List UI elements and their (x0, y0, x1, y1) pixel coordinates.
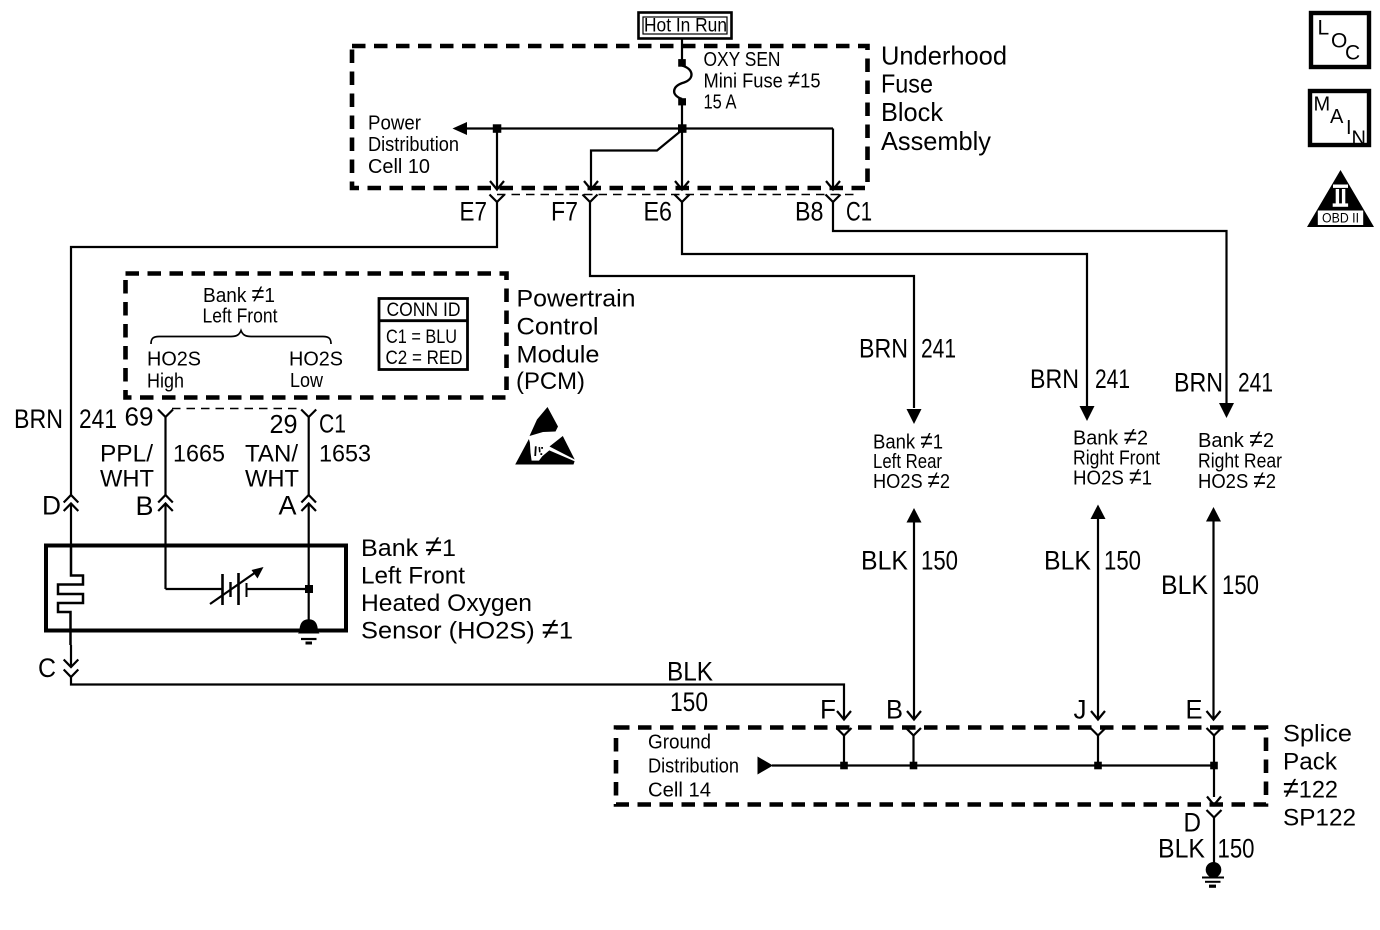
svg-text:Control: Control (517, 314, 599, 341)
ESD sensitive device symbol (515, 407, 575, 465)
wire: C to splice pack F (BLK 150) (71, 677, 851, 720)
junction at F (840, 762, 848, 770)
label: Splice Pack #122 SP122 (1283, 721, 1356, 832)
wire: Bank #1 Left Rear to splice B (BLK 150) (907, 508, 922, 720)
svg-text:WHT: WHT (100, 466, 154, 493)
svg-text:241: 241 (921, 334, 956, 364)
svg-text:F7: F7 (551, 197, 578, 227)
svg-text:B: B (886, 695, 903, 725)
label: Bank #1 Left Rear HO2S #2 (873, 428, 950, 495)
svg-text:E: E (1186, 695, 1203, 725)
wire: Bank #2 Right Rear to splice E (BLK 150) (1206, 507, 1221, 720)
ground G (chassis ground) (1202, 862, 1224, 886)
label: BLK 150 (column 1) (861, 546, 958, 576)
svg-text:Block: Block (881, 97, 944, 127)
label: Bank #2 Right Rear HO2S #2 (1198, 426, 1282, 494)
OBD II logo (1307, 170, 1374, 227)
svg-text:Mini Fuse ≠15: Mini Fuse ≠15 (704, 67, 821, 94)
junction at B (910, 762, 918, 770)
svg-text:1653: 1653 (319, 441, 371, 468)
wire: E7 to HO2S heater (BRN 241 left) (71, 202, 497, 495)
svg-text:CONN ID: CONN ID (387, 299, 461, 321)
splice bus wire SP122 (772, 764, 1214, 766)
svg-text:150: 150 (670, 687, 708, 717)
svg-text:BRN: BRN (1030, 364, 1079, 394)
wire: B8 drop with arrow (826, 129, 840, 190)
wire: Bank #2 Right Front to splice J (BLK 150) (1091, 505, 1106, 720)
PCM connector face dashed line (172, 408, 302, 410)
label: OXY SEN Mini Fuse #15 15 A (704, 49, 821, 114)
svg-text:Fuse: Fuse (881, 69, 933, 99)
svg-text:Right Front: Right Front (1073, 448, 1160, 470)
label BRN 241 (column 2) (1030, 364, 1130, 394)
wire: pin 29 to connector A (308, 417, 310, 495)
svg-text:PPL/: PPL/ (100, 441, 153, 468)
label: Bank #2 Right Front HO2S #1 (1073, 424, 1160, 491)
svg-text:BLK: BLK (1044, 546, 1091, 576)
svg-text:C: C (38, 653, 56, 683)
connector E7 (490, 195, 505, 203)
svg-text:HO2S: HO2S (289, 349, 343, 371)
connector pin 69 (158, 410, 173, 418)
svg-text:E7: E7 (460, 197, 488, 227)
svg-text:241: 241 (79, 404, 117, 434)
svg-text:HO2S ≠1: HO2S ≠1 (1073, 464, 1152, 491)
label: Ground Distribution Cell 14 (648, 732, 739, 802)
svg-text:Splice: Splice (1283, 721, 1352, 748)
label: BLK 150 (column 2) (1044, 546, 1141, 576)
svg-text:Assembly: Assembly (881, 126, 991, 156)
svg-text:C2 = RED: C2 = RED (386, 347, 463, 369)
svg-text:(PCM): (PCM) (516, 368, 585, 395)
svg-text:D: D (42, 491, 61, 521)
LOC reference box (1311, 13, 1369, 67)
ground feed arrow (into splice bus) (758, 757, 774, 775)
svg-text:C1: C1 (846, 197, 872, 227)
label: BLK 150 (column 3) (1161, 570, 1259, 600)
svg-text:OXY SEN: OXY SEN (704, 49, 781, 71)
wire: splice to connector D (ground) (1207, 766, 1221, 806)
svg-text:C1: C1 (319, 409, 346, 439)
svg-text:69: 69 (125, 402, 154, 432)
inline connector A (301, 495, 316, 544)
label: BLK 150 (ground lead) (1158, 834, 1255, 864)
svg-text:HO2S ≠2: HO2S ≠2 (1198, 467, 1276, 494)
connector F (837, 728, 852, 766)
svg-text:B8: B8 (795, 197, 824, 227)
svg-text:≠122: ≠122 (1283, 772, 1338, 805)
junction at E (1210, 762, 1218, 770)
connector B8/C1 (826, 195, 841, 203)
sensing element (variable cell with arrow) (166, 544, 310, 605)
svg-text:Distribution: Distribution (648, 756, 739, 778)
svg-text:L: L (1318, 17, 1330, 40)
junction (sense wire to pin A wire) (305, 585, 313, 593)
svg-text:Bank ≠2: Bank ≠2 (1073, 424, 1148, 451)
label: TAN/WHT (245, 441, 299, 493)
svg-text:BLK: BLK (1161, 570, 1208, 600)
svg-text:Left Front: Left Front (203, 306, 278, 328)
svg-text:Ground: Ground (648, 732, 711, 754)
splice pack dashed box (Ground Distribution) (616, 728, 1266, 805)
PCM dashed box (126, 274, 507, 398)
svg-text:Bank ≠2: Bank ≠2 (1198, 426, 1274, 453)
connector face dashed line (fuse block connectors) (497, 194, 856, 196)
svg-text:150: 150 (1104, 546, 1141, 576)
wire: fuse output to junction (681, 104, 683, 130)
svg-text:Left Front: Left Front (361, 563, 465, 590)
label: Bank #1 Left Front (PCM internal) (203, 281, 278, 328)
svg-text:C1 = BLU: C1 = BLU (386, 326, 457, 348)
svg-text:F: F (820, 695, 836, 725)
svg-text:C: C (1345, 42, 1360, 65)
svg-text:1665: 1665 (173, 441, 225, 468)
svg-text:BLK: BLK (667, 657, 713, 687)
svg-text:Low: Low (290, 370, 323, 392)
svg-text:Distribution: Distribution (368, 134, 459, 156)
label BRN 241 (left wire) (14, 404, 117, 434)
svg-text:B: B (136, 491, 154, 521)
wire: E6 to Bank #2 Right Front arrow (682, 202, 1095, 421)
svg-text:150: 150 (1218, 834, 1255, 864)
svg-text:150: 150 (921, 546, 958, 576)
inline connector C (BLK 150 out) (64, 645, 79, 677)
power source box "Hot In Run" (639, 13, 732, 39)
wire: C1 to Bank #2 Right Rear arrow (833, 202, 1234, 418)
svg-text:Bank ≠1: Bank ≠1 (361, 530, 456, 563)
wire: feed bus to Power Distribution (left arrow) (453, 122, 834, 135)
connector E (1207, 728, 1222, 766)
label: Powertrain Control Module (PCM) (516, 286, 636, 396)
wire: Hot In Run to fuse (681, 40, 683, 61)
svg-text:HO2S ≠2: HO2S ≠2 (873, 467, 950, 494)
label: BLK 150 (left run) (667, 657, 713, 718)
connector F7 (583, 195, 598, 203)
connector J (1091, 728, 1106, 766)
connector D (ground lead) (1207, 810, 1222, 863)
svg-text:High: High (147, 371, 184, 393)
label: HO2S High (147, 349, 201, 393)
svg-text:A: A (1330, 106, 1344, 128)
svg-text:Bank ≠1: Bank ≠1 (203, 281, 275, 308)
svg-text:Powertrain: Powertrain (517, 286, 636, 313)
svg-text:J: J (1074, 695, 1087, 725)
junction at fuse output (678, 124, 687, 133)
label: Power Distribution Cell 10 (368, 113, 459, 179)
connector pin 29 (301, 410, 316, 418)
MAIN reference box (1310, 91, 1369, 150)
svg-text:N: N (1352, 128, 1366, 150)
svg-text:Cell 10: Cell 10 (368, 156, 430, 178)
svg-text:Hot In Run: Hot In Run (644, 15, 727, 37)
svg-text:Cell 14: Cell 14 (648, 780, 711, 802)
svg-text:Heated Oxygen: Heated Oxygen (361, 590, 532, 617)
fuse OXY SEN Mini Fuse #15 (674, 59, 691, 105)
connector E6 (675, 195, 690, 203)
sensor case ground (dome) (298, 619, 320, 643)
svg-text:E6: E6 (644, 197, 673, 227)
svg-text:OBD II: OBD II (1322, 211, 1359, 226)
svg-text:BLK: BLK (1158, 834, 1205, 864)
connector B (splice) (906, 728, 921, 766)
inline connector D (left wire) (64, 495, 79, 544)
svg-text:HO2S: HO2S (147, 349, 201, 371)
wire: E6 drop with arrow (675, 132, 689, 190)
label: Bank #1 Left Front Heated Oxygen Sensor (HO2S) #1 (361, 530, 573, 646)
label: PPL/WHT (100, 441, 154, 493)
svg-text:A: A (279, 491, 297, 521)
svg-text:BRN: BRN (1174, 368, 1223, 398)
underhood fuse block assembly dashed box (352, 46, 868, 188)
wire: pin A to sensor ground (308, 544, 310, 620)
HO2S #1 sensor box (46, 546, 346, 631)
svg-text:TAN/: TAN/ (245, 441, 298, 468)
wire: F7 branch with arrow (584, 130, 682, 190)
svg-text:Right Rear: Right Rear (1198, 451, 1282, 473)
svg-text:BRN: BRN (14, 404, 63, 434)
wire: F7 to Bank #1 Left Rear arrow (590, 202, 922, 424)
svg-text:WHT: WHT (245, 466, 299, 493)
junction at E7 drop (493, 124, 502, 133)
svg-text:15 A: 15 A (704, 92, 738, 114)
svg-text:29: 29 (270, 409, 298, 439)
wire: pin 69 to connector B (164, 417, 166, 495)
label BRN 241 (column 1) (859, 334, 956, 364)
svg-text:M: M (1314, 94, 1331, 116)
inline connector B (158, 495, 173, 544)
svg-text:150: 150 (1222, 570, 1259, 600)
CONN ID table (379, 299, 468, 370)
svg-text:BLK: BLK (861, 546, 908, 576)
svg-text:241: 241 (1238, 368, 1273, 398)
label: HO2S Low (289, 349, 343, 393)
brace (HO2S High/Low grouping) (151, 331, 331, 345)
heater element (58, 544, 83, 645)
svg-text:Underhood: Underhood (881, 41, 1007, 71)
svg-text:SP122: SP122 (1283, 805, 1356, 832)
svg-text:Sensor (HO2S) ≠1: Sensor (HO2S) ≠1 (361, 613, 573, 646)
svg-text:Power: Power (368, 113, 421, 135)
label BRN 241 (column 3) (1174, 368, 1273, 398)
label: Underhood Fuse Block Assembly (881, 41, 1007, 157)
junction at J (1094, 762, 1102, 770)
svg-text:Module: Module (517, 342, 600, 369)
svg-text:BRN: BRN (859, 334, 908, 364)
wire: E7 drop with arrow (490, 132, 504, 190)
svg-text:241: 241 (1095, 364, 1130, 394)
